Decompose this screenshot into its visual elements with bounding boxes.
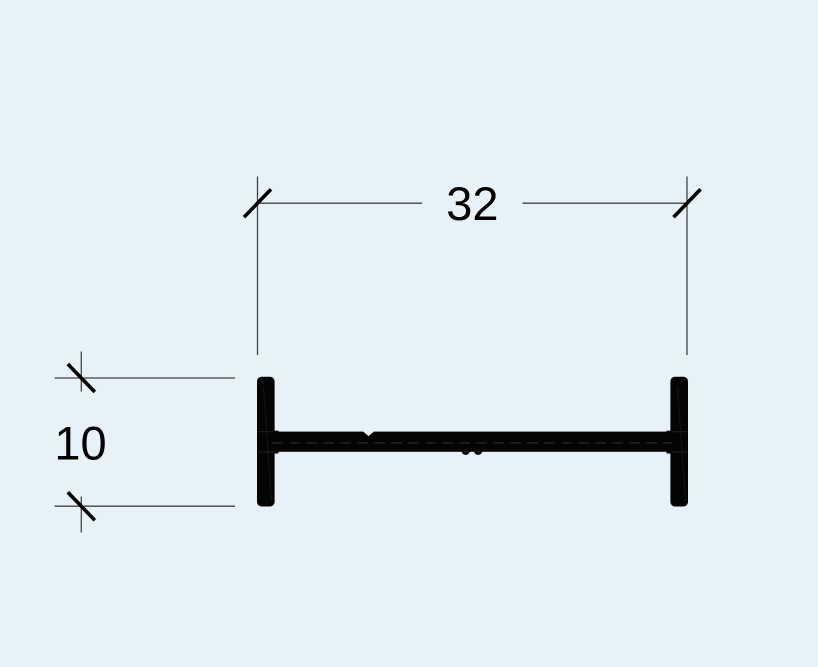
svg-text:32: 32 (446, 177, 498, 230)
svg-text:10: 10 (54, 417, 106, 470)
